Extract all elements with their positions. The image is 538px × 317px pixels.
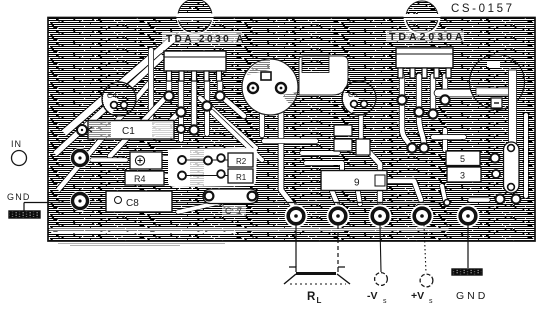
scan smudge below board left (58, 244, 225, 246)
pad C7 left (205, 192, 214, 201)
pad left column input (70, 148, 90, 168)
speaker RL symbol (284, 267, 350, 284)
C1 lead left arrow (76, 127, 92, 132)
label TDA 2030 A left (162, 32, 242, 43)
pad box in right circle (491, 98, 502, 108)
capacitor C1 box (76, 121, 174, 140)
bottom pad -Vs (369, 205, 392, 228)
wire IC1 pin1 trace (110, 80, 169, 156)
svg-text:C1: C1 (122, 126, 135, 137)
white mark top of right circle (487, 62, 500, 67)
svg-text:s: s (429, 298, 433, 305)
wire vertical from right circle to stadium (509, 70, 517, 146)
pad left of R2 (217, 154, 225, 162)
pad inside clearance circle 2 (276, 83, 286, 93)
jumper wire end pad (444, 200, 450, 206)
wire diagonal clearance top-left 2 (55, 56, 163, 154)
terminal +Vs circle (420, 274, 433, 287)
pad small left top (77, 125, 87, 135)
bottom pad GND (457, 205, 480, 228)
svg-text:TDA2030A: TDA2030A (389, 31, 466, 43)
wire center ladder horizontal 1 (264, 138, 316, 144)
clearance pool around mid components (168, 148, 258, 187)
wire diagonal pin fan to center 2 (212, 112, 262, 160)
resistor R3 box (447, 167, 481, 182)
pad mid lead 1 (178, 156, 186, 164)
svg-text:GND: GND (456, 290, 488, 302)
bottom pad RL1 (285, 205, 308, 228)
pad left of R1 (217, 170, 225, 178)
svg-text:R: R (307, 291, 316, 303)
svg-text:R4: R4 (134, 174, 146, 184)
pads under IC2 (397, 95, 449, 152)
large clearance circle center-left (242, 59, 298, 115)
pad C7 right (248, 192, 257, 201)
svg-text:L: L (317, 296, 322, 305)
resistor R5 box (446, 151, 480, 166)
wire IC2 pin1 trace (402, 76, 410, 148)
wire GND left lead (23, 203, 25, 212)
ground bar left (9, 211, 40, 218)
lead stub RL2 pad (337, 203, 339, 210)
wire +Vs lead dotted (424, 225, 426, 273)
label TDA2030A right (386, 31, 464, 42)
IC U1 pins (167, 71, 172, 81)
svg-text:C5: C5 (348, 90, 358, 99)
wire trace clearances group (50, 37, 526, 233)
capacitor C5 right outline circle (342, 81, 376, 115)
wire -Vs lead (380, 225, 381, 272)
wire horizontal inside right circle (476, 88, 510, 95)
pad bottom right small 2 (512, 195, 521, 204)
pad in C5 (351, 101, 358, 108)
lead stub RL1 pad (295, 203, 297, 210)
wire C9 to RL2 pad drop (332, 191, 337, 203)
wire diagonal clearance top-left 1 (55, 37, 175, 190)
capacitor C2 electrolytic box (130, 152, 162, 169)
label C7 (222, 205, 246, 216)
wire C5 to box below (359, 114, 364, 138)
svg-text:9: 9 (354, 178, 360, 189)
pads under IC1 (164, 91, 224, 134)
capacitor C right stadium outline (504, 142, 520, 193)
wire IC1 pin5 trace (220, 80, 244, 116)
wire speaker left lead (295, 225, 297, 267)
hatch patch in pool (190, 150, 204, 186)
terminal -Vs circle (375, 273, 388, 286)
svg-text:C 7: C 7 (225, 206, 244, 216)
IC U2 TDA2030A right package (396, 48, 453, 78)
ground bar bottom (452, 269, 482, 275)
wire IC2 pin2 trace (419, 76, 424, 146)
pad inside clearance circle 1 (248, 83, 258, 93)
svg-text:CS-0157: CS-0157 (451, 3, 515, 15)
PCB board copper ground plane (48, 18, 535, 242)
wire ground bus separation gap (50, 229, 448, 231)
wire short trace between RL2 and -Vs pads (357, 186, 360, 204)
wire left short horizontal at C2 (92, 158, 126, 163)
bottom pad +Vs (411, 205, 434, 228)
lead stub -Vs pad (379, 203, 381, 210)
terminal IN circle (12, 151, 27, 166)
lead wire R4 to R1 (186, 175, 228, 177)
pad square inside clearance circle (261, 72, 271, 80)
svg-text:C8: C8 (126, 198, 139, 209)
wire IC1 pin2 trace (160, 80, 181, 133)
resistor R4 box (125, 171, 164, 185)
capacitor C8 box (106, 191, 172, 212)
wire center ladder horizontal 3 (306, 163, 342, 172)
wire short vertical below IC1 pad2 (178, 116, 184, 140)
pad right of C1 (177, 125, 185, 133)
wire GND bottom lead (467, 225, 469, 268)
svg-text:3: 3 (460, 171, 465, 181)
wire diagonal clearance top-left 3 (58, 80, 152, 190)
wire center circle drop 2 (259, 112, 265, 135)
pad bottom right small 1 (496, 195, 505, 204)
wire right vertical near edge (523, 115, 528, 196)
svg-text:GND: GND (7, 192, 31, 202)
wire horizontal C2 to R2 (164, 155, 214, 160)
wire center circle drop vertical (281, 113, 292, 204)
capacitor C7 pill body (203, 189, 258, 204)
mounting hole top-left (170, 0, 220, 35)
bottom pad RL2 (327, 205, 350, 228)
wire short trace between +Vs and GND pads (442, 186, 446, 204)
IC U1 TDA2030A left package (164, 51, 226, 81)
wire horizontal trace right mid (433, 134, 464, 140)
pad right of R5 (491, 154, 500, 163)
mounting hole top-right (398, 0, 446, 36)
wire bottom-left diagonal trace (178, 196, 248, 212)
svg-text:R1: R1 (236, 173, 247, 182)
resistor box R2 (228, 153, 253, 167)
small boxes left of C5 (334, 125, 352, 136)
wire bottom right trace (470, 198, 488, 203)
wire speaker right lead dashed (337, 225, 339, 267)
wire short vertical below IC1 pad4 (204, 110, 210, 134)
lead wire C2 to R2 (186, 159, 228, 161)
wire trace C9 right to +Vs pad (388, 181, 421, 200)
wire diagonal pin fan to center 1 (200, 98, 256, 148)
pad right of R3 (492, 170, 500, 178)
wire gap inside ground bus (52, 232, 235, 234)
svg-text:IN: IN (11, 139, 22, 149)
pad in C4 (111, 102, 118, 109)
wire trace -Vs pad up (367, 150, 380, 202)
capacitor C4 left outline circle (102, 82, 136, 116)
wire IC2 pin3 trace (430, 76, 436, 112)
wire IC1 pin4 trace (207, 80, 240, 136)
IC U2 pins (398, 68, 403, 78)
resistor box R1 (228, 169, 253, 183)
wire vertical clearance left of IC1 (148, 50, 154, 118)
large circle right (470, 55, 525, 147)
wire IC2 wide horizontal band (438, 89, 472, 98)
svg-text:C4: C4 (107, 91, 117, 100)
svg-text:TDA 2030 A: TDA 2030 A (166, 34, 246, 45)
pad mid lead 3 (178, 172, 186, 180)
wire center ladder horizontal 2 (302, 150, 338, 155)
wire IC1 pin3 trace (191, 80, 197, 130)
small box below C5 (356, 139, 370, 155)
capacitor C9 box (321, 171, 387, 191)
pad mid lead 2 (204, 157, 212, 165)
wire vertical to R5 box (442, 130, 448, 150)
svg-text:s: s (383, 298, 387, 305)
copper clearance blob between channels (299, 56, 348, 95)
wire IC2 pin4 trace (442, 76, 448, 90)
svg-text:R2: R2 (236, 157, 247, 166)
svg-text:-V: -V (367, 290, 378, 302)
svg-text:+V: +V (411, 290, 424, 302)
component side jumper wire horizontal (24, 202, 446, 204)
svg-text:5: 5 (460, 154, 465, 164)
copper tongue in blob (302, 57, 329, 73)
pad left column gnd (70, 191, 90, 211)
wire horizontal R4 to R1 (166, 173, 214, 178)
wire R5 to pad (480, 157, 490, 159)
